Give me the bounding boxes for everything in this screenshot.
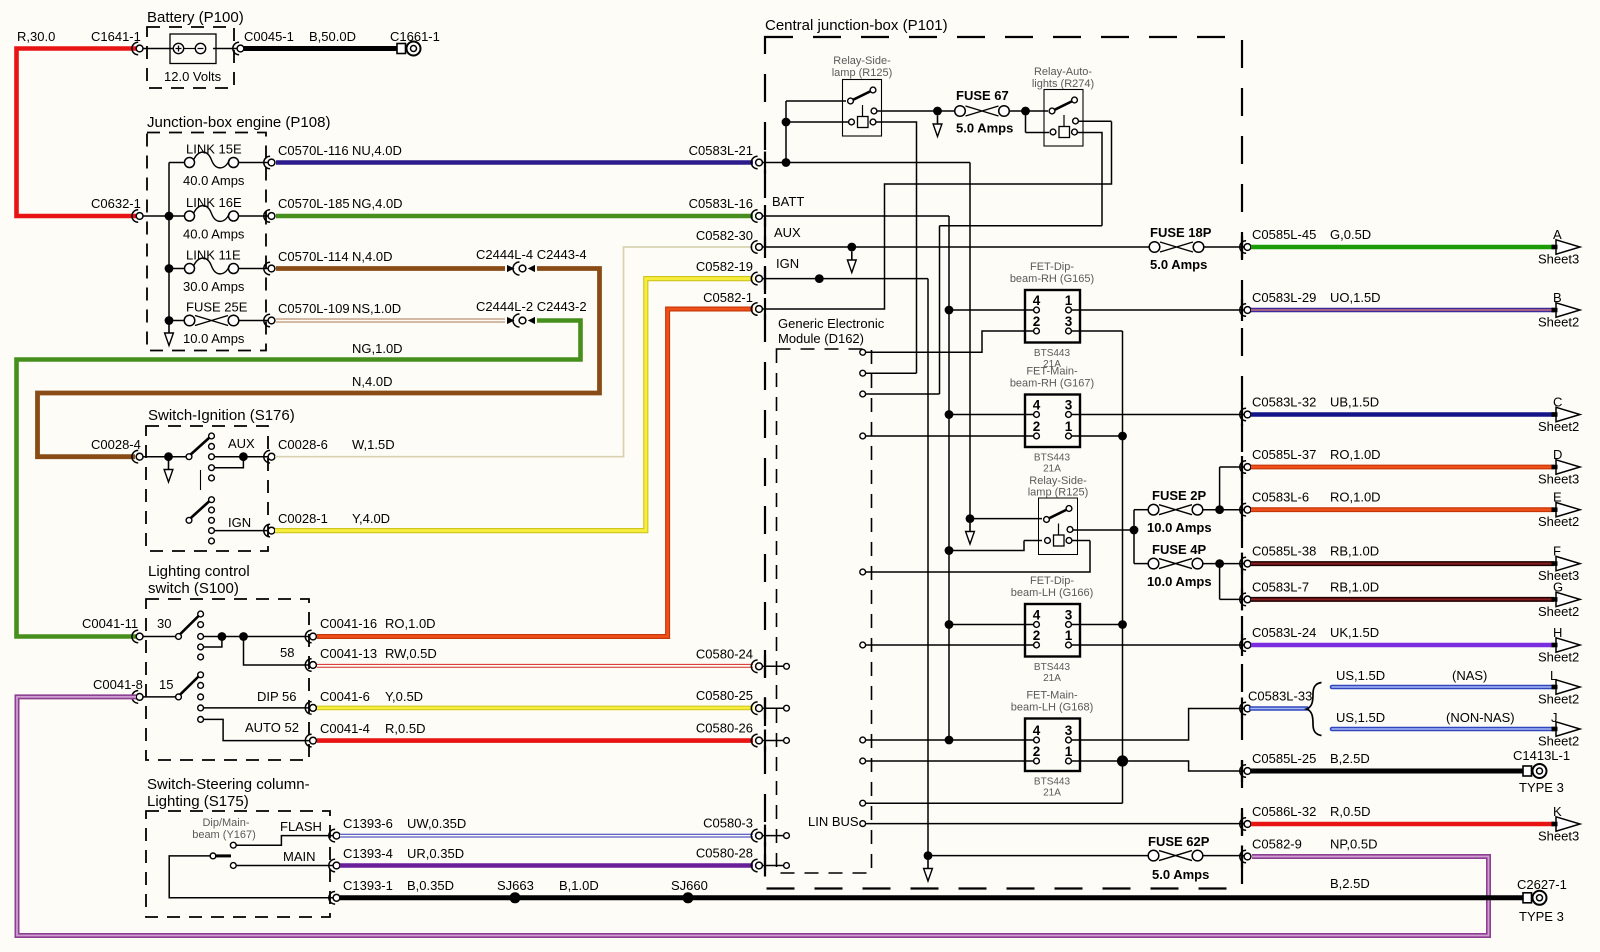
svg-text:F: F (1553, 544, 1561, 559)
connector C0041-8 (132, 691, 138, 704)
sheet arrow H (1556, 638, 1580, 652)
svg-text:FET-Main-: FET-Main- (1026, 690, 1078, 702)
svg-text:beam-LH (G168): beam-LH (G168) (1011, 702, 1094, 714)
wire R125 coil feed from NU node (786, 101, 848, 163)
junction dot R125 lower coil feed (945, 546, 954, 555)
wire NP/purple loop C0041-8 to C0582-9 (17, 697, 1489, 936)
svg-text:C0041-6: C0041-6 (320, 689, 370, 704)
junction dot G166 pin3 (1118, 620, 1127, 629)
connector C0583L-7 (1240, 593, 1246, 606)
svg-text:Relay-Auto-: Relay-Auto- (1034, 66, 1092, 78)
svg-text:C0045-1: C0045-1 (244, 29, 294, 44)
svg-text:LIN BUS: LIN BUS (808, 814, 859, 829)
svg-text:Sheet3: Sheet3 (1538, 252, 1579, 267)
connector C0028-1 (264, 524, 270, 537)
relay R125 top (843, 80, 882, 137)
svg-text:Generic Electronic: Generic Electronic (778, 316, 885, 331)
battery box P100 dashed outline (147, 27, 234, 88)
continuation arrow below S176 input (168, 461, 170, 471)
svg-text:C0583L-29: C0583L-29 (1252, 290, 1316, 305)
svg-text:RB,1.0D: RB,1.0D (1330, 579, 1379, 594)
svg-text:15: 15 (159, 677, 173, 692)
ignition switch pole 2 contacts (209, 497, 215, 503)
svg-text:C0582-19: C0582-19 (696, 259, 753, 274)
wire G165 pin3 to output bus (1071, 331, 1123, 761)
svg-text:C0028-1: C0028-1 (278, 511, 328, 526)
mechanical link line S176 (200, 470, 202, 490)
svg-text:BTS443: BTS443 (1034, 777, 1071, 788)
svg-text:Switch-Ignition (S176): Switch-Ignition (S176) (148, 407, 295, 424)
wire FUSE 2P to connectors D and E (1203, 467, 1244, 510)
switch S100 pole 30 contacts (198, 611, 204, 617)
svg-text:FUSE 2P: FUSE 2P (1152, 488, 1207, 503)
MAIN contact wiring (236, 865, 333, 867)
svg-text:RO,1.0D: RO,1.0D (385, 616, 436, 631)
svg-text:C0580-3: C0580-3 (703, 816, 753, 831)
wire G168 pin1 to C0585L-25 (1071, 761, 1244, 771)
inline connector C2444L-4 C2443-4 (507, 265, 515, 272)
svg-text:Junction-box engine (P108): Junction-box engine (P108) (147, 114, 330, 131)
connector C0580-26 (751, 734, 757, 747)
fuse LINK 11E 30.0 Amps (169, 268, 268, 270)
GEM pin wire to FET G167 pin2 (866, 435, 1034, 437)
svg-text:FUSE 18P: FUSE 18P (1150, 225, 1212, 240)
wire Y,4.0D yellow (275, 279, 753, 531)
svg-text:LINK 11E: LINK 11E (186, 248, 241, 263)
svg-text:Module (D162): Module (D162) (778, 331, 864, 346)
svg-text:Sheet3: Sheet3 (1538, 829, 1579, 844)
FET module G166 (1025, 604, 1080, 657)
svg-text:C0041-16: C0041-16 (320, 616, 377, 631)
sheet arrow B (1556, 303, 1580, 317)
FET module G168 (1025, 719, 1080, 772)
GEM LIN BUS lower wire to C0586L-32 (866, 823, 1244, 825)
svg-text:C0041-13: C0041-13 (320, 646, 377, 661)
svg-text:30.0 Amps: 30.0 Amps (183, 279, 245, 294)
P108 bus continuation arrow (168, 325, 170, 335)
svg-text:30: 30 (157, 616, 171, 631)
svg-text:C0580-26: C0580-26 (696, 721, 753, 736)
svg-text:A: A (1553, 227, 1562, 242)
svg-text:2: 2 (1033, 419, 1041, 434)
svg-text:FUSE 25E: FUSE 25E (186, 300, 248, 315)
wire R125 lower coil feed from BATT bus (949, 541, 1042, 551)
ignition switch pole 1 arm (189, 438, 210, 457)
svg-text:4: 4 (1033, 293, 1041, 308)
svg-text:Sheet2: Sheet2 (1538, 650, 1579, 665)
svg-text:21A: 21A (1043, 788, 1061, 799)
junction dot FUSE 62P feed (924, 851, 933, 860)
svg-text:C0041-11: C0041-11 (82, 616, 138, 631)
svg-text:10.0 Amps: 10.0 Amps (1147, 574, 1212, 589)
battery symbol (170, 34, 216, 64)
svg-text:BTS443: BTS443 (1034, 348, 1071, 359)
svg-text:12.0 Volts: 12.0 Volts (164, 69, 222, 84)
stub wire C0580-26 (763, 740, 784, 742)
wire C0041-8 to switch pole 15 (144, 696, 177, 698)
wire R,0.5D to sheet arrow K (1251, 822, 1554, 827)
connector C0045-1 (233, 42, 239, 55)
svg-text:beam-LH (G166): beam-LH (G166) (1011, 587, 1094, 599)
svg-text:C0570L-185: C0570L-185 (278, 196, 350, 211)
wire B,2.5D to ring C1413L-1 (1251, 769, 1524, 774)
svg-text:B,2.5D: B,2.5D (1330, 751, 1370, 766)
ring terminal C1661-1 (397, 44, 406, 54)
svg-text:C1393-1: C1393-1 (343, 878, 393, 893)
wire W,1.5D pale (275, 247, 753, 457)
splice SJ660 (683, 892, 694, 903)
wire bracket to FUSE 4P (1134, 563, 1148, 565)
svg-text:FUSE 4P: FUSE 4P (1152, 542, 1207, 557)
wire Y,0.5D yellow (317, 706, 753, 711)
wire RW,0.5D red/white (317, 664, 753, 668)
wire RB,1.0D to sheet arrow F (1251, 561, 1554, 566)
wire BATT bus down FET supply (948, 216, 950, 740)
junction dot FUSE 4P output (1215, 559, 1224, 568)
wire battery internal left (144, 48, 174, 50)
splice SJ663 (510, 892, 521, 903)
svg-text:Relay-Side-: Relay-Side- (1029, 475, 1087, 487)
pole 30 output wiring (204, 637, 310, 666)
wire RB,1.0D to sheet arrow G (1251, 597, 1554, 602)
junction dot G166 pin4 (945, 620, 954, 629)
wire US,1.5D stub (1251, 706, 1307, 711)
wire BATT row inside P101 (763, 215, 950, 217)
connector C0585L-38 (1240, 557, 1246, 570)
svg-text:C0583L-6: C0583L-6 (1252, 490, 1309, 505)
junction dot AUX (239, 452, 248, 461)
svg-text:C0583L-21: C0583L-21 (689, 143, 753, 158)
wire C0041-11 to switch pole 30 (144, 636, 177, 638)
svg-text:RB,1.0D: RB,1.0D (1330, 544, 1379, 559)
connector C0583L-33 (1240, 702, 1246, 715)
svg-text:NU,4.0D: NU,4.0D (352, 143, 402, 158)
sheet arrow E (1556, 503, 1580, 517)
svg-text:C0580-28: C0580-28 (696, 846, 753, 861)
continuation arrow below R125 lower input (969, 523, 971, 533)
fuse FUSE 67 5.0 Amps (955, 106, 966, 117)
connector C0585L-37 (1240, 461, 1246, 474)
svg-text:C0570L-116: C0570L-116 (278, 143, 349, 158)
connector pin on P108 edge at LINK 11E (264, 262, 270, 275)
svg-text:C0585L-25: C0585L-25 (1252, 751, 1316, 766)
svg-text:1: 1 (1065, 419, 1073, 434)
connector C0585L-45 (1240, 241, 1246, 254)
svg-text:Switch-Steering column-: Switch-Steering column- (147, 776, 310, 793)
wire R,30.0 red battery feed (17, 49, 138, 217)
svg-text:C0580-24: C0580-24 (696, 646, 753, 661)
sheet arrow C (1556, 407, 1580, 421)
wire N,4.0D brown to C2444L-4 (276, 266, 505, 271)
svg-text:B,2.5D: B,2.5D (1330, 876, 1370, 891)
switch S100 pole 15 contacts (198, 672, 204, 678)
connector C1393-1 (329, 892, 335, 905)
steering switch arm (215, 854, 231, 857)
svg-text:C2444L-2 C2443-2: C2444L-2 C2443-2 (476, 299, 587, 314)
wire bracket to FUSE 2P (1134, 509, 1148, 511)
sheet arrow J (1556, 722, 1580, 736)
connector C0632-1 (132, 210, 138, 223)
wire FUSE 62P to C0582-9 (1203, 855, 1244, 857)
sheet arrow K (1556, 817, 1580, 831)
svg-text:C0028-4: C0028-4 (91, 437, 141, 452)
svg-text:RO,1.0D: RO,1.0D (1330, 447, 1381, 462)
wire RO,1.0D to sheet arrow D (1251, 465, 1554, 470)
wire R,0.5D red (317, 738, 753, 743)
svg-text:AUTO 52: AUTO 52 (245, 720, 299, 735)
relay R274 (1044, 90, 1083, 147)
svg-text:SJ660: SJ660 (671, 878, 708, 893)
svg-text:Lighting (S175): Lighting (S175) (147, 793, 249, 810)
wire R274 switch output (1078, 120, 1112, 122)
fuse LINK 15E 40.0 Amps (169, 162, 268, 164)
P101 left edge bars (764, 152, 766, 174)
svg-text:3: 3 (1065, 723, 1073, 738)
connector C0028-4 (132, 450, 138, 463)
junction dot G167 pin4 (945, 410, 954, 419)
stub wire C0580-24 (763, 665, 784, 667)
svg-text:C0583L-32: C0583L-32 (1252, 395, 1316, 410)
svg-text:switch (S100): switch (S100) (148, 580, 239, 597)
GEM pins (860, 349, 866, 355)
svg-text:N,4.0D: N,4.0D (352, 249, 392, 264)
stub wire C0580-25 (763, 707, 784, 709)
connector C0582-19 (751, 272, 757, 285)
svg-text:5.0 Amps: 5.0 Amps (1150, 257, 1207, 272)
wire US,1.5D NON-NAS branch J (1332, 727, 1554, 732)
stub wire C0580-3 (763, 835, 784, 837)
svg-text:1: 1 (1065, 628, 1073, 643)
GEM pin wire to R274 coil bus (866, 393, 940, 395)
svg-text:UB,1.5D: UB,1.5D (1330, 395, 1379, 410)
junction dot R125 coil feed (782, 118, 791, 127)
junction dot NU row (782, 158, 791, 167)
central junction-box P101 dashed outline (765, 37, 1242, 889)
svg-text:C: C (1553, 395, 1562, 410)
svg-text:C0041-4: C0041-4 (320, 721, 370, 736)
sheet arrow L (1556, 680, 1580, 694)
connector C0582-9 (1240, 850, 1246, 863)
connector C0580-25 (751, 702, 757, 715)
svg-text:N,4.0D: N,4.0D (352, 374, 392, 389)
connector C0041-13 (305, 659, 311, 672)
wire G167 pin1 to output bus (1071, 435, 1123, 437)
svg-text:W,1.5D: W,1.5D (352, 437, 395, 452)
wire FUSE 4P to connectors F and G (1203, 564, 1244, 600)
fuse FUSE 2P 10.0 Amps (1148, 504, 1159, 515)
wire UK,1.5D to sheet arrow H (1251, 643, 1554, 648)
svg-text:C0582-30: C0582-30 (696, 228, 753, 243)
svg-text:2: 2 (1033, 628, 1041, 643)
svg-text:C0585L-45: C0585L-45 (1252, 227, 1316, 242)
wire US,1.5D NAS branch L (1332, 685, 1554, 690)
svg-text:SJ663: SJ663 (497, 878, 534, 893)
svg-text:FUSE 67: FUSE 67 (956, 88, 1009, 103)
wire BATT bus to G165 pin4 (949, 309, 1034, 311)
junction-box engine P108 dashed outline (147, 133, 266, 351)
fuse FUSE 62P 5.0 Amps (1148, 850, 1159, 861)
svg-text:2: 2 (1033, 314, 1041, 329)
DIP 56 output wiring (204, 707, 310, 709)
svg-text:TYPE 3: TYPE 3 (1519, 909, 1564, 924)
ignition switch pole 1 contacts (209, 433, 215, 439)
svg-text:G: G (1553, 579, 1563, 594)
svg-text:2: 2 (1033, 744, 1041, 759)
AUX contact wiring (215, 457, 269, 468)
wire to FUSE 62P (928, 855, 1148, 857)
connector C1641-1 (132, 42, 138, 55)
connector C0028-6 (264, 450, 270, 463)
svg-text:Lighting control: Lighting control (148, 563, 250, 580)
svg-text:TYPE 3: TYPE 3 (1519, 780, 1564, 795)
junction dot FUSE 2P output (1215, 505, 1224, 514)
svg-text:MAIN: MAIN (283, 849, 316, 864)
wire UR,0.35D purple (340, 863, 753, 868)
svg-text:C0585L-37: C0585L-37 (1252, 447, 1316, 462)
svg-text:10.0 Amps: 10.0 Amps (1147, 520, 1212, 535)
wire R125 lower output to fuse bracket (1073, 510, 1135, 564)
junction dot G168 pin1 output bus (1117, 755, 1128, 766)
sheet arrow G (1556, 592, 1580, 606)
svg-text:LINK 16E: LINK 16E (186, 195, 242, 210)
svg-text:Sheet3: Sheet3 (1538, 472, 1579, 487)
svg-text:IGN: IGN (228, 515, 251, 530)
P108 internal bus wire (168, 163, 170, 321)
svg-text:LINK 15E: LINK 15E (186, 142, 242, 157)
svg-text:UR,0.35D: UR,0.35D (407, 846, 464, 861)
P101 right edge bars (1241, 236, 1243, 258)
svg-text:5.0 Amps: 5.0 Amps (956, 121, 1013, 136)
svg-text:58: 58 (280, 645, 294, 660)
connector C1393-4 (329, 859, 335, 872)
connector C0580-24 (751, 660, 757, 673)
svg-text:C0632-1: C0632-1 (91, 196, 141, 211)
GEM pin wire to FET G168 pin4 row (866, 739, 1034, 741)
junction dot AUX row (847, 243, 856, 252)
generic electronic module D162 dashed outline (777, 349, 872, 873)
svg-text:(NON-NAS): (NON-NAS) (1446, 710, 1515, 725)
svg-text:D: D (1553, 447, 1562, 462)
wire G166 pin3 to output bus (1071, 624, 1123, 626)
sheet arrow F (1556, 556, 1580, 570)
svg-text:3: 3 (1065, 314, 1073, 329)
IGN contact wiring (215, 530, 269, 532)
FLASH contact wiring (236, 836, 333, 846)
svg-text:H: H (1553, 625, 1562, 640)
connector C0041-4 (305, 734, 311, 747)
switch S100 pole 15 arm (179, 676, 200, 696)
wire UW,0.35D blue/white (340, 834, 753, 838)
svg-text:1: 1 (1065, 744, 1073, 759)
GEM pin wire to relay R125-2 coil (866, 541, 1090, 573)
svg-text:C0583L-33: C0583L-33 (1248, 689, 1312, 704)
svg-text:Central junction-box (P101): Central junction-box (P101) (765, 17, 948, 34)
connector C0041-11 (132, 630, 138, 643)
connector C0583L-29 (1240, 304, 1246, 317)
svg-text:beam-RH (G165): beam-RH (G165) (1010, 273, 1094, 285)
continuation arrow below FUSE 62P feed (927, 860, 929, 870)
fuse FUSE 4P 10.0 Amps (1148, 558, 1159, 569)
junction dot after FUSE 67 (1021, 107, 1030, 116)
connector C0041-6 (305, 702, 311, 715)
connector C0586L-32 (1240, 818, 1246, 831)
svg-text:5.0 Amps: 5.0 Amps (1152, 867, 1209, 882)
switch-steering S175 dashed outline (146, 811, 330, 917)
wire NU,4.0D navy (276, 160, 753, 164)
ignition switch pole 2 arm (189, 501, 210, 520)
svg-text:4: 4 (1033, 723, 1041, 738)
connector C0582-30 (751, 241, 757, 254)
inline connector C2444L-2 C2443-2 (507, 317, 515, 324)
wire R125 output to FUSE 67 (877, 110, 956, 112)
FET module G165 (1025, 290, 1080, 343)
svg-text:C0028-6: C0028-6 (278, 437, 328, 452)
junction dot fuse bracket (1130, 526, 1139, 535)
wire BATT bus to G167 pin4 (949, 414, 1034, 416)
ring terminal C1413L-1 (1523, 766, 1532, 776)
svg-text:Battery (P100): Battery (P100) (147, 9, 244, 26)
svg-text:NP,0.5D: NP,0.5D (1330, 837, 1377, 852)
wire BATT bus to G166 pin4 (949, 624, 1034, 626)
wire G166 pin1 to C0583L-24 (1071, 644, 1244, 646)
wire RO,1.0D to sheet arrow E (1251, 507, 1554, 512)
wire G,0.5D to sheet arrow A (1251, 245, 1554, 250)
svg-text:lamp (R125): lamp (R125) (832, 67, 893, 79)
svg-text:21A: 21A (1043, 464, 1061, 475)
svg-text:FET-Dip-: FET-Dip- (1030, 575, 1074, 587)
svg-text:R,0.5D: R,0.5D (1330, 804, 1370, 819)
svg-text:AUX: AUX (228, 436, 255, 451)
connector C0583L-16 (751, 210, 757, 223)
svg-text:C0586L-32: C0586L-32 (1252, 804, 1316, 819)
wire UO,1.5D to sheet arrow B (1251, 308, 1554, 313)
GEM pin wire to FET G165 pin2 (866, 331, 1034, 352)
wire NU bus to R125 lower switch (970, 518, 1042, 520)
svg-text:Sheet2: Sheet2 (1538, 514, 1579, 529)
fuse LINK 16E 40.0 Amps (169, 215, 268, 217)
svg-text:beam (Y167): beam (Y167) (192, 829, 256, 841)
svg-text:C0570L-109: C0570L-109 (278, 301, 350, 316)
wire UB,1.5D to sheet arrow C (1251, 412, 1554, 417)
svg-text:RW,0.5D: RW,0.5D (385, 646, 437, 661)
junction dot S176 input (164, 452, 173, 461)
svg-text:NG,1.0D: NG,1.0D (352, 341, 403, 356)
svg-text:BTS443: BTS443 (1034, 453, 1071, 464)
wire G168 pin3 to C0583L-33 (1071, 709, 1244, 741)
wire R274 coil feed (1026, 111, 1050, 133)
svg-text:C0585L-38: C0585L-38 (1252, 544, 1316, 559)
wire B,50.0D ground strap (244, 46, 398, 51)
svg-text:UW,0.35D: UW,0.35D (407, 816, 466, 831)
wire B ground bus to C2627-1 (340, 895, 1523, 900)
svg-text:B,0.35D: B,0.35D (407, 878, 454, 893)
switch S100 pole 30 arm (179, 616, 200, 636)
connector pin on P108 edge at LINK 15E (264, 156, 270, 169)
continuation arrow below AUX dot (851, 252, 853, 262)
svg-text:R,30.0: R,30.0 (17, 29, 55, 44)
svg-text:FET-Dip-: FET-Dip- (1030, 261, 1074, 273)
svg-text:E: E (1553, 490, 1562, 505)
continuation arrow below FUSE 67 feed (937, 116, 939, 126)
svg-text:beam-RH (G167): beam-RH (G167) (1010, 378, 1094, 390)
svg-text:lamp (R125): lamp (R125) (1028, 487, 1089, 499)
wire into R125 switch (786, 100, 846, 102)
connector pin on P108 edge at LINK 16E (264, 210, 270, 223)
svg-text:RO,1.0D: RO,1.0D (1330, 490, 1381, 505)
svg-text:10.0 Amps: 10.0 Amps (183, 331, 245, 346)
connector C1393-6 (329, 829, 335, 842)
wire FUSE 18P to C0585L-45 (1204, 246, 1244, 248)
